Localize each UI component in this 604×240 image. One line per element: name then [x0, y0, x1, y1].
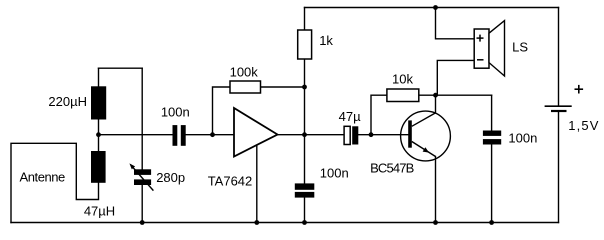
wire speaker plus lead: [436, 8, 475, 39]
wire right 100n upper lead: [491, 95, 493, 130]
node dot 10k/base: [369, 132, 374, 137]
wire TA7642 ground stub: [256, 146, 258, 223]
svg-text:Antenne: Antenne: [20, 170, 66, 185]
node dot rail 100n: [302, 220, 307, 225]
wire emitter vertical: [435, 157, 437, 223]
node dot rail emitter: [433, 220, 438, 225]
svg-text:LS: LS: [512, 39, 528, 54]
wire speaker minus lead: [437, 60, 474, 95]
wire battery right column bottom: [558, 112, 560, 223]
inductor L2 47uH: [91, 151, 106, 183]
svg-text:10k: 10k: [392, 72, 413, 87]
wire 100k left lead: [213, 87, 231, 135]
svg-text:100n: 100n: [508, 131, 537, 146]
capacitor C4 100n right plates: [483, 131, 501, 145]
wire top rail: [305, 7, 559, 9]
wire battery right column top: [558, 8, 560, 106]
svg-text:100n: 100n: [161, 105, 190, 120]
resistor R1 100k: [230, 81, 261, 93]
capacitor C1 100n coupling plates: [173, 125, 186, 146]
wire 1k bottom lead / output column: [304, 59, 306, 135]
svg-text:100k: 100k: [230, 65, 259, 80]
svg-text:1k: 1k: [319, 33, 333, 48]
speaker LS: [474, 21, 504, 76]
wire 280p lower lead: [141, 185, 143, 223]
node dot top rail speaker: [433, 5, 438, 10]
svg-text:47µ: 47µ: [339, 109, 361, 124]
wire 220uH bottom to node: [98, 120, 100, 135]
op-amp U1 TA7642: [234, 108, 278, 157]
antenna Antenne outline: [11, 143, 99, 222]
wire 100n to TA7642 input: [186, 134, 234, 136]
wire 47uH top to node: [98, 135, 100, 151]
svg-text:280p: 280p: [156, 170, 185, 185]
node dot TA7642 output: [302, 132, 307, 137]
node dot rail TA7642: [254, 220, 259, 225]
svg-text:220µH: 220µH: [48, 94, 87, 109]
wire bottom ground rail: [11, 222, 559, 224]
wire 47u to base: [358, 134, 408, 136]
wire 100k right lead: [261, 86, 305, 88]
resistor R2 1k: [298, 30, 312, 59]
capacitor C3 47u electrolytic: [344, 126, 358, 144]
node dot rail right 100n: [489, 220, 494, 225]
svg-text:BC547B: BC547B: [370, 160, 413, 175]
wire 10k right lead: [419, 94, 436, 96]
capacitor 280p variable plates: [134, 169, 151, 185]
wire 1k top lead: [304, 8, 306, 31]
node dot tank/signal: [96, 132, 101, 137]
wire right 100n lower lead: [491, 145, 493, 223]
svg-text:47µH: 47µH: [84, 204, 115, 219]
wire signal node to 100n coupling cap: [99, 134, 173, 136]
battery B1 1.5V: [545, 85, 584, 111]
svg-text:100n: 100n: [320, 165, 349, 180]
capacitor 280p trimmer arrow: [129, 163, 153, 190]
node dot 100k/1k: [302, 85, 307, 90]
wire bottom 100n upper lead: [304, 135, 306, 184]
transistor Q1 BC547B: [401, 111, 451, 161]
capacitor C2 100n bottom plates: [295, 183, 315, 197]
wire TA7642 output: [278, 134, 345, 136]
wire collector vertical: [435, 95, 437, 113]
svg-text:TA7642: TA7642: [208, 174, 253, 189]
node dot TA7642 input: [210, 132, 215, 137]
wire 10k left lead: [371, 95, 387, 135]
wire bottom 100n lower lead: [304, 198, 306, 223]
wire tank top segment: [99, 67, 143, 69]
wire collector node to 100n right: [436, 94, 492, 96]
resistor R3 10k: [387, 89, 419, 102]
node dot collector: [433, 93, 438, 98]
svg-text:1,5V: 1,5V: [568, 118, 599, 133]
wire 220uH top lead: [98, 68, 100, 86]
node dot rail 280p: [140, 220, 145, 225]
inductor L1 220uH: [91, 86, 106, 119]
wire 280p upper lead: [141, 68, 143, 169]
